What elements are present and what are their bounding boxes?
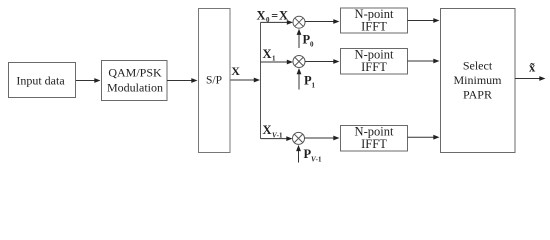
svg-text:=: = [271,9,278,23]
svg-text:IFFT: IFFT [361,20,387,34]
svg-text:Modulation: Modulation [107,81,163,95]
svg-text:Select: Select [463,59,493,73]
svg-text:Input data: Input data [16,74,65,88]
svg-text:X: X [263,47,272,61]
svg-text:X: X [257,9,266,23]
svg-text:1: 1 [272,55,276,63]
svg-text:IFFT: IFFT [361,137,387,151]
svg-text:0: 0 [266,16,270,24]
svg-text:1: 1 [312,81,316,89]
svg-text:IFFT: IFFT [361,60,387,74]
svg-text:V-1: V-1 [311,156,322,164]
svg-text:x̃: x̃ [529,61,536,75]
svg-text:Minimum: Minimum [453,73,502,87]
svg-text:X: X [263,123,272,137]
svg-text:X: X [231,64,240,78]
svg-text:QAM/PSK: QAM/PSK [108,66,162,80]
svg-text:PAPR: PAPR [463,88,492,102]
svg-text:X: X [279,9,288,23]
svg-text:V-1: V-1 [272,132,283,140]
svg-text:0: 0 [310,40,314,48]
svg-text:S/P: S/P [206,75,222,87]
